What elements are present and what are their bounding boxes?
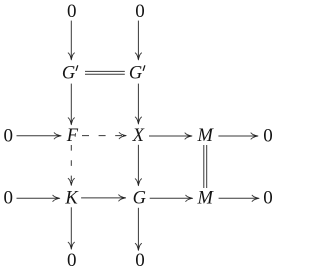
svg-text:0: 0 [135, 250, 145, 269]
node 0 bottom-left [67, 250, 77, 269]
arrow 0 to G' (right column) [135, 21, 141, 61]
double line M = M [204, 145, 207, 188]
arrow 0 to G' (left column) [68, 21, 74, 61]
svg-text:X: X [132, 126, 145, 146]
node 0 top-left [67, 1, 77, 22]
node 0 middle-right [263, 125, 273, 146]
arrow G to M [150, 195, 193, 201]
arrow M to 0 (bottom row) [219, 195, 260, 201]
dashed arrow F to X [82, 133, 126, 139]
svg-text:0: 0 [263, 125, 273, 146]
node 0 lower-right [263, 188, 273, 209]
svg-text:M: M [196, 189, 214, 209]
node M top [196, 126, 214, 146]
svg-text:0: 0 [67, 250, 77, 269]
arrow 0 to F [17, 133, 62, 139]
node 0 top-right [135, 1, 145, 22]
svg-text:0: 0 [263, 188, 273, 209]
arrow K to G [81, 195, 126, 201]
svg-text:0: 0 [135, 1, 145, 22]
node G' left [62, 64, 78, 84]
arrow G to 0 [135, 208, 141, 251]
svg-text:G: G [129, 64, 142, 84]
double line G' = G' [85, 71, 125, 74]
node 0 bottom-right [135, 250, 145, 269]
arrow 0 to K [17, 195, 61, 201]
arrow M to 0 (middle row) [218, 133, 258, 139]
node K [64, 189, 79, 209]
node F [66, 126, 79, 146]
node M bottom [196, 189, 214, 209]
node X [132, 126, 145, 146]
svg-text:0: 0 [3, 188, 13, 209]
dashed arrow F to K [68, 145, 74, 186]
arrow G' to X [135, 84, 141, 125]
arrow G' to F [68, 84, 74, 125]
node G [133, 189, 146, 209]
svg-text:F: F [66, 126, 79, 146]
node G' right [129, 64, 145, 84]
arrow X to G [135, 145, 141, 186]
arrow X to M [149, 133, 192, 139]
svg-text:M: M [196, 126, 214, 146]
arrow K to 0 [68, 207, 74, 249]
svg-text:G: G [62, 64, 75, 84]
svg-text:G: G [133, 189, 146, 209]
svg-text:0: 0 [3, 125, 13, 146]
svg-text:0: 0 [67, 1, 77, 22]
node 0 lower-left [3, 188, 13, 209]
node 0 middle-left [3, 125, 13, 146]
svg-text:K: K [64, 189, 79, 209]
